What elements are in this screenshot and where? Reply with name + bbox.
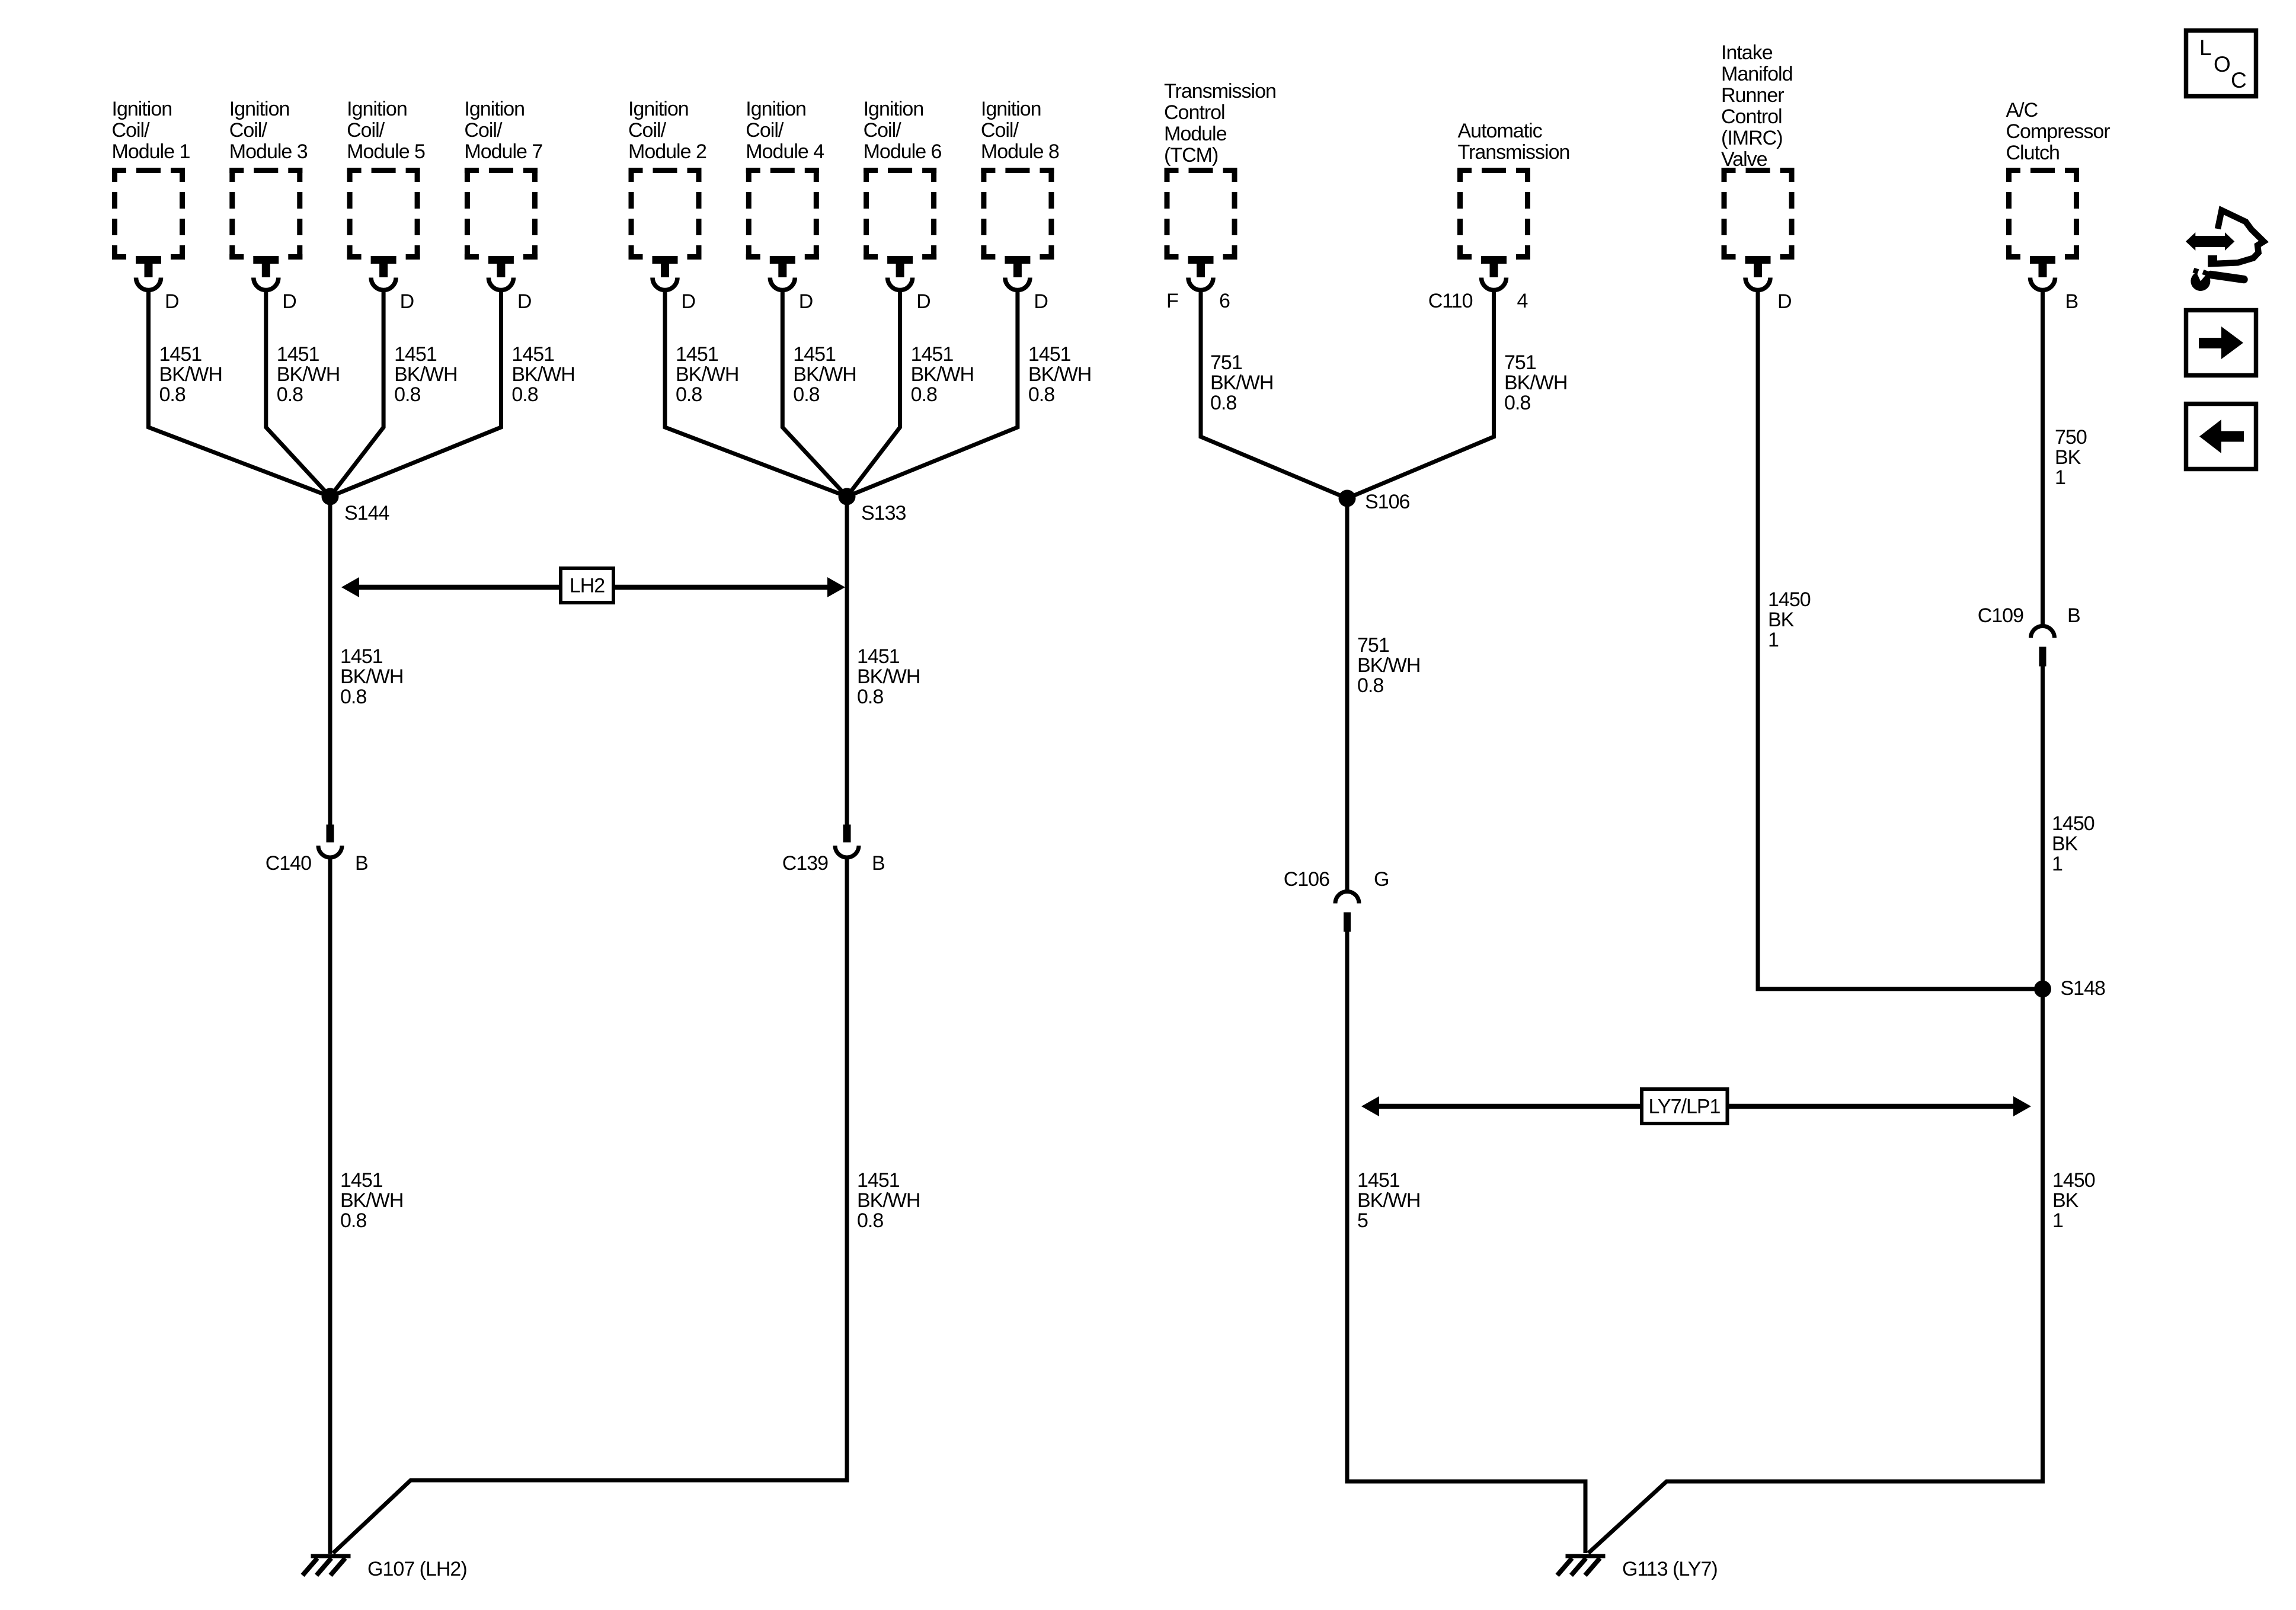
svg-text:Automatic: Automatic [1458,120,1543,142]
svg-text:0.8: 0.8 [340,686,366,708]
svg-text:Intake: Intake [1721,41,1773,64]
connector pin B of A/C compressor clutch [2030,256,2078,313]
svg-text:1: 1 [2055,466,2065,489]
svg-text:Ignition: Ignition [229,98,290,120]
svg-text:B: B [2065,290,2078,313]
svg-text:BK/WH: BK/WH [511,363,574,386]
svg-text:Module 1: Module 1 [112,140,190,163]
splice S106 [1339,490,1410,514]
wire 1451 BK/WH 0.8 from ignition coil/module 3 to splice [266,290,330,497]
wire 1451 BK/WH 0.8 from ignition coil/module 7 to splice [330,290,501,497]
wire 1450 BK 1 from C109 through S148 to G113 [1588,659,2043,1553]
svg-text:1451: 1451 [340,645,383,668]
svg-text:Module 5: Module 5 [347,140,425,163]
svg-text:Control: Control [1721,105,1782,128]
svg-text:BK/WH: BK/WH [1028,363,1091,386]
svg-text:BK/WH: BK/WH [394,363,457,386]
wire label 750 BK 1 (A/C) [2055,426,2087,489]
connector pin F 6 of TCM [1166,256,1230,312]
svg-text:0.8: 0.8 [340,1209,366,1232]
svg-text:1450: 1450 [1768,588,1811,611]
svg-text:Module 6: Module 6 [864,140,942,163]
vehicle service icon with double arrow and wrench [2186,210,2264,291]
svg-text:B: B [2067,604,2080,627]
svg-text:C140: C140 [266,852,311,875]
wire label 1451 BK/WH 0.8 (coil 3) [277,343,340,406]
svg-text:(TCM): (TCM) [1164,144,1218,167]
splice S133 [839,488,906,525]
svg-text:Clutch: Clutch [2006,142,2060,164]
svg-text:750: 750 [2055,426,2087,449]
connector pin D of ignition coil/module 7 [488,256,532,313]
wire 1450 BK 1 from IMRC valve to S148 [1758,290,2043,989]
svg-text:BK/WH: BK/WH [857,665,920,688]
ignition coil/module 6 component box [864,98,942,260]
svg-text:C: C [2231,68,2246,92]
ignition coil/module 1 component box [112,98,190,260]
ignition coil/module 5 component box [347,98,425,260]
svg-text:Coil/: Coil/ [981,119,1019,142]
svg-text:1451: 1451 [911,343,954,366]
connector pin D of ignition coil/module 1 [136,256,179,313]
wire label 1451 BK/WH 0.8 (coil 1) [159,343,222,406]
wire 1451 BK/WH 0.8 from S133 to C139 [845,497,849,825]
svg-text:0.8: 0.8 [1210,392,1236,414]
svg-text:Coil/: Coil/ [112,119,151,142]
automatic transmission component box [1457,120,1569,260]
svg-text:D: D [282,290,296,313]
wire label 1450 BK 1 (C109 to S148) [2052,812,2094,875]
wire label 1451 BK/WH 0.8 (coil 8) [1028,343,1091,406]
svg-text:Module 4: Module 4 [746,140,824,163]
ignition coil/module 2 component box [628,98,706,260]
svg-text:S133: S133 [861,502,906,524]
svg-text:BK/WH: BK/WH [1357,654,1420,677]
wire label 751 BK/WH 0.8 (S106 to C106) [1357,634,1420,697]
svg-text:1451: 1451 [676,343,718,366]
svg-text:0.8: 0.8 [1504,392,1530,414]
svg-text:Ignition: Ignition [981,98,1041,120]
wire label 1451 BK/WH 0.8 (C139 to G107) [857,1169,920,1232]
svg-text:BK: BK [2052,833,2078,855]
wire 751 BK/WH 0.8 from automatic transmission pin 4 to splice S106 [1347,290,1494,498]
svg-text:Transmission: Transmission [1164,80,1276,103]
wire label 1451 BK/WH 0.8 (coil 5) [394,343,457,406]
svg-text:Module 8: Module 8 [981,140,1059,163]
inline connector C139 pin B [782,825,885,875]
svg-text:1: 1 [1768,629,1779,651]
svg-text:Coil/: Coil/ [347,119,385,142]
svg-text:1: 1 [2052,1209,2063,1232]
svg-text:751: 751 [1210,351,1242,374]
intake manifold runner control (IMRC) valve component box [1721,41,1795,260]
svg-text:0.8: 0.8 [394,383,420,406]
svg-text:D: D [517,290,532,313]
svg-text:BK/WH: BK/WH [159,363,222,386]
svg-text:1451: 1451 [340,1169,383,1192]
svg-text:S144: S144 [344,502,389,524]
svg-text:BK: BK [2052,1189,2079,1212]
svg-text:4: 4 [1517,290,1528,312]
svg-text:(IMRC): (IMRC) [1721,127,1783,149]
svg-text:Ignition: Ignition [746,98,806,120]
wire 1451 BK/WH 0.8 from ignition coil/module 1 to splice [149,290,331,497]
svg-text:Coil/: Coil/ [229,119,268,142]
svg-text:BK/WH: BK/WH [1210,372,1273,394]
inline connector C109 pin B [1978,604,2080,667]
wire label 1451 BK/WH 0.8 (coil 7) [511,343,574,406]
svg-text:0.8: 0.8 [793,383,819,406]
connector pin C110 4 of automatic transmission [1428,256,1528,312]
svg-text:C110: C110 [1428,290,1473,312]
svg-text:1451: 1451 [277,343,319,366]
svg-text:Ignition: Ignition [112,98,172,120]
svg-text:1451: 1451 [511,343,554,366]
svg-text:G113 (LY7): G113 (LY7) [1622,1558,1718,1580]
svg-text:D: D [799,290,813,313]
wire label 1451 BK/WH 0.8 (coil 4) [793,343,856,406]
wire 751 BK/WH 0.8 from TCM pin 6 to splice S106 [1201,290,1347,498]
wire label 751 BK/WH 0.8 (automatic transmission) [1504,351,1567,414]
wire 751 BK/WH 0.8 from S106 to C106 [1345,498,1350,890]
svg-text:1451: 1451 [857,1169,900,1192]
svg-text:0.8: 0.8 [857,1209,883,1232]
wire label 751 BK/WH 0.8 (TCM) [1210,351,1273,414]
LH2 harness double-headed arrow [341,568,845,603]
svg-text:LY7/LP1: LY7/LP1 [1649,1096,1721,1118]
svg-text:BK/WH: BK/WH [857,1189,920,1212]
wire 1451 BK/WH 0.8 from ignition coil/module 5 to splice [330,290,383,497]
svg-text:BK/WH: BK/WH [340,665,403,688]
connector pin D of ignition coil/module 3 [253,256,296,313]
wire label 1451 BK/WH 0.8 (S133 to C139) [857,645,920,708]
svg-text:1451: 1451 [1357,1169,1400,1192]
svg-text:D: D [165,290,179,313]
svg-text:D: D [916,290,930,313]
svg-text:751: 751 [1504,351,1536,374]
connector pin D of ignition coil/module 6 [887,256,930,313]
svg-text:0.8: 0.8 [1357,674,1383,697]
svg-text:BK/WH: BK/WH [1357,1189,1420,1212]
svg-text:A/C: A/C [2006,99,2038,121]
svg-text:0.8: 0.8 [857,686,883,708]
svg-text:BK: BK [1768,609,1795,631]
svg-text:C139: C139 [782,852,828,875]
svg-text:D: D [1777,290,1792,313]
svg-text:C109: C109 [1978,604,2023,627]
svg-text:Module: Module [1164,123,1227,145]
svg-text:Ignition: Ignition [347,98,407,120]
wire 1451 BK/WH 5 from C106 to G113 [1347,931,1585,1553]
svg-text:0.8: 0.8 [277,383,303,406]
svg-text:Module 7: Module 7 [464,140,542,163]
ignition coil/module 4 component box [746,98,824,260]
LOC reference box [2186,31,2256,97]
svg-text:D: D [682,290,696,313]
inline connector C140 pin B [266,825,368,875]
svg-text:0.8: 0.8 [511,383,538,406]
wire label 1451 BK/WH 0.8 (coil 6) [911,343,974,406]
svg-text:B: B [355,852,368,875]
connector pin D of ignition coil/module 2 [653,256,696,313]
svg-text:1451: 1451 [159,343,202,366]
svg-text:Runner: Runner [1721,84,1784,107]
wire 750 BK 1 from A/C compressor clutch to C109 [2041,290,2045,625]
ignition coil/module 3 component box [229,98,308,260]
svg-text:BK/WH: BK/WH [911,363,974,386]
wire 1451 BK/WH 0.8 from S144 to C140 [328,497,332,825]
svg-text:D: D [400,290,414,313]
connector pin D of IMRC valve [1745,256,1792,313]
svg-text:Valve: Valve [1721,148,1767,171]
svg-text:Coil/: Coil/ [464,119,503,142]
svg-text:Module 3: Module 3 [229,140,308,163]
ground G107 (LH2) [303,1554,467,1581]
svg-text:S106: S106 [1365,491,1409,513]
svg-text:BK/WH: BK/WH [277,363,340,386]
forward page arrow box [2186,311,2256,376]
svg-text:1451: 1451 [1028,343,1071,366]
ground G113 (LY7) [1558,1554,1718,1581]
transmission control module (TCM) component box [1164,80,1276,260]
svg-text:6: 6 [1219,290,1230,312]
svg-text:5: 5 [1357,1209,1368,1232]
backward page arrow box [2186,404,2256,469]
svg-text:Module 2: Module 2 [628,140,706,163]
svg-text:0.8: 0.8 [159,383,186,406]
svg-text:D: D [1034,290,1048,313]
svg-text:751: 751 [1357,634,1389,657]
svg-text:Compressor: Compressor [2006,120,2110,143]
svg-text:Coil/: Coil/ [628,119,667,142]
wire 1451 BK/WH 0.8 from ignition coil/module 2 to splice [665,290,847,497]
svg-text:1451: 1451 [857,645,900,668]
svg-text:1450: 1450 [2052,1169,2095,1192]
wire label 1451 BK/WH 0.8 (S144 to C140) [340,645,403,708]
svg-text:BK/WH: BK/WH [1504,372,1567,394]
svg-text:1450: 1450 [2052,812,2094,835]
connector pin D of ignition coil/module 8 [1005,256,1048,313]
connector pin D of ignition coil/module 4 [770,256,813,313]
wire 1451 BK/WH 0.8 from C139 to G107 [333,858,847,1553]
svg-text:BK/WH: BK/WH [676,363,738,386]
svg-text:0.8: 0.8 [1028,383,1054,406]
svg-text:0.8: 0.8 [911,383,937,406]
svg-text:0.8: 0.8 [676,383,702,406]
wire label 1450 BK 1 (IMRC) [1768,588,1811,651]
wire label 1451 BK/WH 0.8 (C140 to G107) [340,1169,403,1232]
svg-text:G107 (LH2): G107 (LH2) [367,1558,467,1580]
svg-text:Transmission: Transmission [1458,141,1570,164]
svg-text:BK/WH: BK/WH [793,363,856,386]
svg-text:Control: Control [1164,101,1225,124]
svg-text:F: F [1166,290,1178,312]
wire 1451 BK/WH 0.8 from ignition coil/module 6 to splice [847,290,900,497]
splice S144 [322,488,389,525]
svg-text:Coil/: Coil/ [746,119,784,142]
wire 1451 BK/WH 0.8 from ignition coil/module 8 to splice [847,290,1018,497]
svg-text:BK: BK [2055,446,2081,469]
svg-text:Manifold: Manifold [1721,63,1793,85]
svg-text:C106: C106 [1284,868,1329,891]
wire 1451 BK/WH 0.8 from C140 to G107 [328,858,332,1554]
inline connector C106 pin G [1284,868,1389,932]
svg-text:O: O [2214,52,2230,76]
ignition coil/module 8 component box [981,98,1059,260]
svg-text:Ignition: Ignition [628,98,689,120]
svg-text:1451: 1451 [394,343,437,366]
svg-text:BK/WH: BK/WH [340,1189,403,1212]
wire 1451 BK/WH 0.8 from ignition coil/module 4 to splice [782,290,847,497]
svg-text:Ignition: Ignition [464,98,525,120]
svg-text:LH2: LH2 [570,575,605,597]
svg-text:Ignition: Ignition [864,98,924,120]
svg-text:Coil/: Coil/ [864,119,902,142]
svg-text:G: G [1374,868,1389,891]
wire label 1451 BK/WH 5 (C106 to G113) [1357,1169,1420,1232]
svg-text:S148: S148 [2061,977,2105,1000]
wire label 1450 BK 1 (S148 to G113) [2052,1169,2095,1232]
A/C compressor clutch component box [2006,99,2110,260]
wire label 1451 BK/WH 0.8 (coil 2) [676,343,738,406]
svg-text:1: 1 [2052,853,2062,875]
svg-text:B: B [872,852,885,875]
LY7/LP1 harness double-headed arrow [1361,1089,2031,1124]
splice S148 [2034,977,2105,1000]
svg-text:L: L [2199,36,2211,60]
connector pin D of ignition coil/module 5 [371,256,414,313]
svg-text:1451: 1451 [793,343,836,366]
ignition coil/module 7 component box [464,98,542,260]
